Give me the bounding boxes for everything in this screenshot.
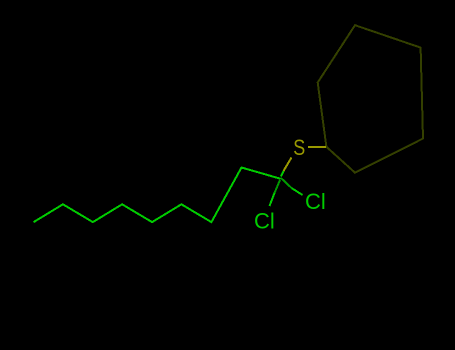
wire: S to ring bond	[308, 146, 326, 148]
node: cyclohexane ring (faint dark olive)	[318, 25, 423, 173]
svg-text:Cl: Cl	[254, 209, 275, 234]
svg-text:S: S	[293, 135, 305, 160]
wire: CCl2 to right Cl bond (chlorine half)	[292, 188, 303, 195]
wire: CCl2 to right Cl bond (carbon half)	[281, 178, 292, 188]
wire: CCl2 to left Cl bond (chlorine half)	[270, 193, 275, 206]
wire: S to CCl2 bond (olive half)	[284, 158, 292, 172]
svg-text:Cl: Cl	[305, 189, 326, 214]
wire: S to CCl2 bond (green half)	[281, 171, 284, 177]
wire: alkyl chain zigzag	[34, 168, 281, 223]
wire: CCl2 to left Cl bond (carbon half)	[275, 180, 281, 193]
